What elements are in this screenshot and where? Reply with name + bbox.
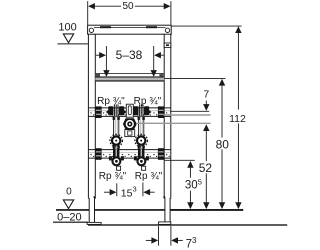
svg-text:50: 50: [122, 1, 134, 12]
svg-text:Rp ¾": Rp ¾": [135, 171, 163, 182]
svg-text:52: 52: [199, 161, 213, 175]
svg-text:Rp ¾": Rp ¾": [134, 96, 162, 107]
svg-text:100: 100: [58, 22, 76, 34]
svg-text:80: 80: [216, 137, 230, 151]
svg-text:0: 0: [66, 186, 72, 197]
svg-text:0–20: 0–20: [57, 212, 81, 224]
svg-text:Rp ¾": Rp ¾": [97, 96, 125, 107]
svg-text:Rp ¾": Rp ¾": [99, 171, 127, 182]
svg-text:5–38: 5–38: [116, 48, 143, 62]
svg-text:112: 112: [229, 113, 246, 125]
svg-text:7: 7: [203, 89, 209, 101]
